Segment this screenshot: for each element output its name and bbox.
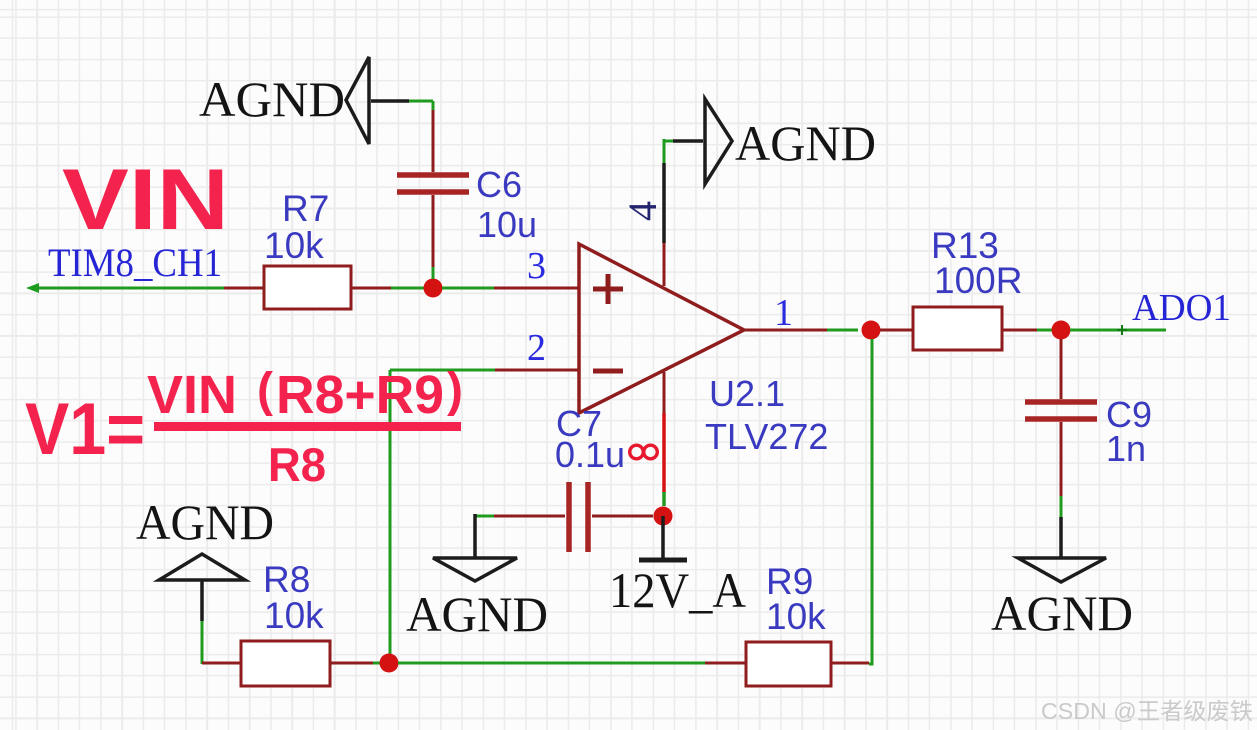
capacitor C7 — [569, 482, 588, 552]
wire TIM8_CH1 input green — [26, 283, 224, 293]
node output junction dot — [862, 321, 881, 340]
capacitor C9 — [1025, 402, 1097, 419]
label R7 10k — [264, 188, 329, 266]
svg-text:C6: C6 — [476, 164, 522, 205]
wire C9 down to AGND — [1060, 422, 1063, 558]
wire C6 up to AGND — [371, 101, 433, 172]
svg-text:10k: 10k — [766, 596, 826, 637]
label U2.1 TLV272 — [705, 373, 828, 457]
svg-text:AGND: AGND — [991, 585, 1133, 641]
svg-text:100R: 100R — [934, 260, 1022, 301]
ground AGND top-middle symbol — [705, 99, 732, 184]
svg-text:(: ( — [257, 364, 273, 417]
svg-text:R8: R8 — [268, 438, 326, 491]
wire output node to R13 — [880, 329, 913, 332]
ground AGND bottom-right symbol — [1018, 558, 1106, 582]
label R13 100R — [931, 225, 1022, 301]
svg-text:12V_A: 12V_A — [609, 562, 746, 618]
resistor R9 — [746, 642, 831, 686]
label C7 0.1u — [555, 403, 625, 475]
wire node A to pin 3 — [442, 287, 579, 290]
wire pin 4 vertical — [664, 139, 703, 286]
svg-text:U2.1: U2.1 — [709, 373, 785, 414]
wire output node down to R9 — [869, 339, 872, 664]
wire C7 right to node — [592, 515, 653, 518]
node ADO1 junction dot — [1052, 321, 1071, 340]
annotation numerator VIN (R8+R9) — [147, 364, 463, 425]
ground AGND bottom-middle symbol — [433, 558, 517, 581]
svg-text:0.1u: 0.1u — [555, 434, 625, 475]
wire R8 to node B — [330, 662, 380, 665]
annotation fraction bar — [154, 422, 461, 431]
ground AGND top-left symbol — [346, 57, 369, 144]
svg-text:): ) — [447, 364, 463, 417]
wire node down to C9 — [1060, 339, 1063, 399]
svg-text:4: 4 — [620, 201, 665, 221]
svg-text:R7: R7 — [282, 188, 329, 229]
svg-text:10k: 10k — [264, 595, 324, 636]
op-amp minus input mark — [593, 369, 623, 374]
svg-text:AGND: AGND — [199, 71, 345, 127]
op-amp U2.1 — [579, 244, 744, 413]
svg-text:AGND: AGND — [406, 586, 548, 642]
net label anchor tick — [1117, 325, 1127, 335]
svg-text:AGND: AGND — [136, 494, 274, 550]
power 12V_A symbol — [639, 516, 687, 560]
wire pin 2 — [390, 369, 579, 372]
svg-text:VIN: VIN — [62, 152, 229, 248]
svg-text:V1=: V1= — [25, 389, 145, 470]
wire R9 to output vertical — [831, 662, 869, 665]
label R8 10k — [263, 559, 324, 636]
svg-text:AGND: AGND — [735, 115, 876, 171]
wire AGND to R8 — [202, 662, 241, 665]
wire ADO1 out — [1070, 329, 1166, 332]
svg-text:10u: 10u — [477, 204, 537, 245]
svg-text:R8+R9: R8+R9 — [276, 365, 444, 425]
svg-text:2: 2 — [527, 327, 546, 369]
label R9 10k — [766, 561, 826, 637]
label C6 10u — [476, 164, 537, 245]
wire pin 1 to output node — [744, 329, 858, 332]
svg-text:1n: 1n — [1106, 428, 1146, 469]
resistor R7 — [264, 266, 351, 309]
svg-text:1: 1 — [774, 292, 793, 334]
resistor R13 — [913, 307, 1002, 350]
svg-text:3: 3 — [527, 245, 546, 287]
svg-text:TLV272: TLV272 — [705, 416, 828, 457]
svg-text:VIN: VIN — [147, 365, 237, 425]
label C9 1n — [1106, 394, 1152, 469]
node A junction dot — [424, 279, 443, 298]
resistor R8 — [241, 641, 330, 686]
svg-text:R8: R8 — [263, 559, 310, 600]
node 12V_A junction dot — [654, 507, 673, 526]
svg-text:10k: 10k — [264, 225, 324, 266]
svg-text:ADO1: ADO1 — [1132, 287, 1231, 329]
wire op-amp V- pin down — [663, 372, 666, 506]
wire node A up to C6 — [432, 195, 435, 279]
annotation infinity mark — [630, 445, 658, 459]
wire C7 left to AGND — [475, 514, 565, 558]
node B junction dot — [380, 654, 399, 673]
wire R7 to node A — [351, 287, 424, 290]
wire feedback vertical left — [389, 370, 392, 654]
wire node B to R9 — [398, 662, 746, 665]
ground AGND bottom-left symbol — [159, 554, 245, 664]
wire to R7 — [224, 287, 264, 290]
op-amp plus input mark — [593, 274, 623, 304]
wire R13 to node ADO1 — [1002, 329, 1052, 332]
capacitor C6 — [397, 175, 469, 192]
svg-text:CSDN @王者级废铁: CSDN @王者级废铁 — [1041, 698, 1253, 724]
